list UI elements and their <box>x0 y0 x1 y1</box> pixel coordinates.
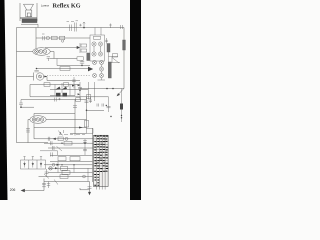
vertical x44 + capacitor C13 <box>43 179 45 191</box>
wire row y161.5 <box>50 161 93 163</box>
svg-text:206: 206 <box>10 188 16 192</box>
IF1 transformer box <box>90 35 105 61</box>
tiny label row <box>59 134 85 136</box>
resistor R17 <box>62 171 70 175</box>
page background <box>0 0 141 200</box>
wire row y65.5 <box>57 65 90 67</box>
resistor R2 <box>60 36 65 40</box>
coil circle <box>65 137 68 140</box>
vertical x94.5 <box>94 82 96 101</box>
capacitor C2 plates <box>80 60 84 65</box>
coil L3 hatched on right bus <box>123 40 126 50</box>
vertical x34 below tube <box>33 123 35 139</box>
top bus capacitors cluster <box>67 21 123 32</box>
capacitor C8 on x28 <box>26 129 30 132</box>
resistor R13 <box>64 141 72 145</box>
trimmer dot <box>61 40 63 42</box>
scan black band left edge <box>0 0 8 200</box>
resistor R10 <box>76 98 81 102</box>
wire row y168.3 <box>48 167 93 169</box>
diode D2 <box>88 67 93 72</box>
wire row y88.5 <box>80 88 124 90</box>
loudspeaker LS <box>20 3 37 21</box>
capacitor C12 <box>51 152 53 156</box>
tube Ro3 capsule <box>28 116 87 143</box>
vertical x80 lower <box>79 82 81 100</box>
resistor R18 <box>60 175 68 179</box>
wire row y96.8 <box>30 96 109 98</box>
switch contact <box>57 146 63 151</box>
vertical from bus x36 <box>35 28 37 49</box>
trimmer caps dark <box>56 93 61 96</box>
vertical x21 + capacitor C7 <box>19 100 23 108</box>
valve table <box>94 135 109 189</box>
capacitor C10 <box>50 141 52 145</box>
capacitor C11 <box>52 146 54 150</box>
relay box <box>87 129 94 134</box>
vertical x85 with caps <box>83 139 87 156</box>
resistor R4 <box>81 49 87 52</box>
resistor R12 <box>58 137 63 141</box>
resistor R14 <box>58 157 66 161</box>
capacitor C3 <box>34 70 38 72</box>
switch cluster <box>58 130 64 136</box>
svg-text:Lorenz: Lorenz <box>41 3 50 7</box>
resistor R5 <box>77 57 83 60</box>
vertical x90.5 <box>89 97 92 103</box>
vertical x75 <box>74 100 76 136</box>
scan black band right edge <box>130 0 141 200</box>
mains arrow <box>23 190 44 192</box>
wire row y127.5 <box>34 127 87 129</box>
resistor R8 <box>64 83 69 87</box>
coil L4 hatched tall <box>108 62 111 78</box>
wire row y150.8 <box>40 151 58 156</box>
vertical x88.5 <box>88 82 90 100</box>
mid column x86.5 <box>86 97 88 129</box>
capacitor C4 <box>105 38 108 44</box>
right drop with arrow <box>89 182 91 193</box>
trimmer wiper arrows <box>56 87 61 90</box>
resistor R6 <box>60 67 70 71</box>
resistor R7 <box>44 83 50 87</box>
coil circle L1 <box>46 36 49 39</box>
coil L2 hatched <box>107 44 110 53</box>
capacitor C14 <box>47 182 50 189</box>
verticals in cluster <box>55 83 75 96</box>
wire row y99.5 <box>21 99 87 101</box>
right bus wire <box>123 28 125 89</box>
tuning arrow <box>118 88 124 95</box>
top bus wire <box>17 27 125 29</box>
left bus wire <box>16 28 18 143</box>
IF1 feed verticals <box>95 28 101 36</box>
resistor R1 <box>52 36 58 40</box>
dashed mechanical link <box>47 75 90 77</box>
wire row y172.5 <box>48 172 93 174</box>
wire row y181.5 <box>44 181 90 183</box>
wire row y138.8 <box>34 138 93 140</box>
output transformer hatched <box>21 19 38 28</box>
resistor R16 <box>61 166 68 170</box>
capacitor C6 <box>55 98 61 102</box>
rectifier stack box <box>21 157 46 170</box>
wire row y89.5 <box>50 89 88 91</box>
vertical x121.5 <box>121 89 123 123</box>
svg-text:Reflex KG: Reflex KG <box>53 3 81 10</box>
wire row y68.5 <box>37 68 89 70</box>
wire row y164.8 <box>44 164 93 166</box>
wire row y47.5 <box>45 47 77 49</box>
wire row y95.5 <box>50 95 75 97</box>
vertical x108.5 <box>107 97 111 112</box>
wire row y80.5 <box>47 80 80 82</box>
resistor R11 <box>84 121 88 128</box>
capacitor under tube <box>47 57 50 61</box>
vertical x57 <box>56 59 58 66</box>
table text texture <box>94 136 108 185</box>
tube Ro1 capsule <box>17 48 55 59</box>
vertical x80 <box>79 43 81 53</box>
coil circle w X <box>49 167 53 171</box>
wire row y143 <box>17 142 94 145</box>
wire row y148 <box>48 147 93 149</box>
capacitor below rectifier <box>45 169 49 177</box>
diode D1 <box>77 46 80 49</box>
switch network mid-right <box>109 52 121 63</box>
coil bar L5 <box>87 53 90 61</box>
resistor R15 <box>70 157 80 161</box>
switch contact <box>44 174 49 179</box>
vertical x74 ticks <box>72 77 76 89</box>
capacitor C9 <box>48 137 50 141</box>
hooks <box>97 104 103 107</box>
capacitor C1 <box>42 34 45 40</box>
IF2 coil circles <box>92 60 105 80</box>
right-mid vertical bus x93 <box>92 128 94 182</box>
resistor R3 <box>81 44 87 47</box>
wire row y176.5 <box>39 176 93 178</box>
wire row y155.3 <box>50 154 93 156</box>
wire row y58.5 <box>50 58 77 60</box>
resistor R9 <box>86 95 90 99</box>
wiper arrow <box>53 138 56 140</box>
tube Ro2 round <box>17 73 48 81</box>
wire row y113.5 <box>34 113 75 115</box>
wire row y84.5 <box>30 84 80 86</box>
wire row y38 <box>36 37 90 39</box>
